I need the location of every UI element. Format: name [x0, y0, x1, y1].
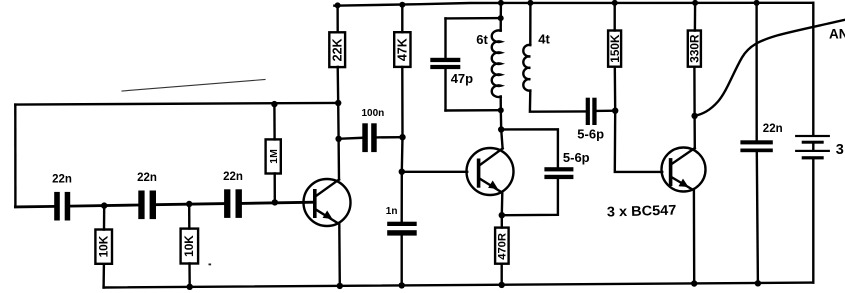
wire signal segment 2	[70, 205, 138, 206]
svg-text:47p: 47p	[451, 71, 473, 86]
wire C7 right lead	[597, 109, 616, 112]
resistor R6 470R	[495, 228, 509, 285]
resistor R2 10K	[181, 204, 199, 287]
capacitor C1 22n	[54, 192, 70, 221]
svg-text:5-6p: 5-6p	[577, 127, 604, 142]
wire ground rail left riser (10K R1 lead)	[102, 265, 105, 288]
svg-text:47K: 47K	[396, 38, 410, 61]
inductor L1 6t	[492, 3, 501, 97]
wire bottom ground rail	[104, 283, 814, 288]
resistor R4 22K	[329, 6, 345, 68]
svg-text:22n: 22n	[223, 171, 243, 183]
svg-text:100n: 100n	[362, 108, 385, 119]
resistor R1 10K	[95, 206, 112, 264]
wire Q3 base	[615, 111, 662, 172]
transistor Q2 BC547	[467, 148, 514, 195]
svg-text:10K: 10K	[182, 235, 196, 257]
wire antenna	[694, 20, 845, 116]
wire Q1 collector line	[338, 67, 339, 180]
svg-text:10K: 10K	[96, 235, 110, 257]
scan artifact line	[122, 80, 265, 92]
svg-text:22n: 22n	[52, 174, 72, 186]
inductor L2 4t	[523, 3, 585, 112]
capacitor C9 22n (decoupling)	[740, 3, 772, 284]
svg-text:ANT: ANT	[829, 27, 845, 42]
transistor Q3 BC547	[662, 148, 706, 192]
wire signal segment 4 (to Q1 base)	[242, 202, 314, 203]
wire feedback top	[15, 103, 338, 105]
svg-text:4t: 4t	[538, 32, 550, 47]
battery B1 3V	[795, 3, 830, 283]
wire Q2 emitter	[501, 193, 504, 228]
capacitor C7 5-6p (horizontal)	[586, 98, 597, 125]
svg-text:5-6p: 5-6p	[563, 150, 590, 165]
wire tank top	[446, 17, 501, 20]
scan speck	[209, 264, 212, 266]
resistor R3 1M	[266, 104, 281, 202]
svg-text:1M: 1M	[268, 149, 280, 164]
svg-text:330R: 330R	[687, 34, 701, 63]
wire tank bottom	[446, 109, 501, 112]
wire 100n left	[339, 138, 363, 139]
svg-text:470R: 470R	[497, 233, 509, 260]
wire Q2 collector to tank	[501, 97, 503, 149]
svg-text:150K: 150K	[608, 34, 622, 63]
resistor R5 47K	[394, 5, 410, 67]
svg-text:22K: 22K	[331, 38, 345, 61]
capacitor C6 47p	[430, 18, 460, 110]
resistor R7 150K	[608, 3, 621, 111]
capacitor C4 100n	[362, 123, 376, 152]
capacitor C2 22n	[138, 191, 156, 220]
svg-text:3: 3	[836, 142, 844, 158]
transistor Q1 BC547	[304, 179, 351, 226]
wire 100n right	[377, 136, 403, 139]
resistor R8 330R	[688, 3, 701, 67]
svg-text:22n: 22n	[763, 123, 783, 135]
svg-text:22n: 22n	[137, 172, 157, 184]
svg-text:3 x BC547: 3 x BC547	[607, 202, 677, 220]
wire signal segment 1	[15, 205, 54, 208]
wire Q2 base	[402, 171, 467, 173]
capacitor C8 5-6p (Q2 feedback)	[501, 129, 573, 215]
wire top supply rail	[334, 3, 813, 6]
svg-text:1n: 1n	[386, 206, 398, 217]
wire Q3 emitter to ground	[693, 191, 696, 284]
wire Q1 emitter to ground	[338, 224, 341, 286]
svg-text:6t: 6t	[476, 32, 488, 47]
wire 47K lower lead	[401, 67, 404, 222]
capacitor C3 22n	[224, 189, 242, 218]
wire 1n bottom lead	[401, 236, 403, 286]
wire Q3 collector	[693, 67, 696, 148]
wire signal segment 3	[156, 204, 224, 205]
wire left vertical	[14, 105, 16, 207]
capacitor C5 1n	[387, 222, 417, 236]
